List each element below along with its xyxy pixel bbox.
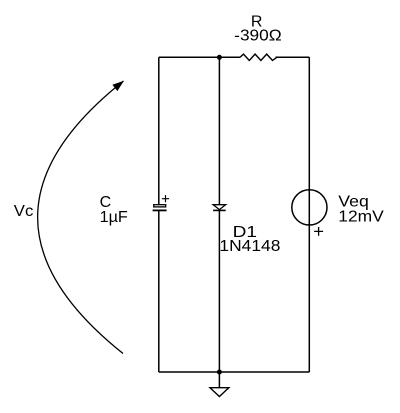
ground symbol xyxy=(210,388,229,397)
capacitor C top plate xyxy=(154,205,166,207)
voltage source Veq circle xyxy=(292,190,327,225)
svg-text:Vc: Vc xyxy=(14,203,34,220)
svg-text:-390Ω: -390Ω xyxy=(234,28,282,45)
wire bottom horizontal xyxy=(159,371,309,373)
wire left vertical lower xyxy=(158,210,160,372)
voltage source plus sign xyxy=(314,227,323,236)
wire middle vertical upper xyxy=(218,57,220,204)
wire top-right horizontal xyxy=(276,56,310,58)
Vc arrowhead xyxy=(112,81,124,91)
node junction bottom xyxy=(217,370,222,375)
svg-text:1µF: 1µF xyxy=(100,209,128,226)
ground stub wire xyxy=(218,372,220,388)
diode D1 triangle xyxy=(213,205,226,210)
Vc arrow curve xyxy=(38,81,124,354)
wire left vertical upper xyxy=(158,57,160,204)
wire middle vertical lower xyxy=(218,210,220,372)
capacitor C bottom plate xyxy=(153,209,167,211)
diode D1 cathode bar xyxy=(213,209,226,211)
capacitor plus sign xyxy=(162,195,169,202)
wire top-left horizontal xyxy=(159,56,240,58)
svg-text:1N4148: 1N4148 xyxy=(219,238,280,255)
svg-text:12mV: 12mV xyxy=(338,208,384,225)
wire right vertical xyxy=(308,57,310,372)
node junction top xyxy=(217,55,222,60)
resistor R xyxy=(240,54,277,60)
